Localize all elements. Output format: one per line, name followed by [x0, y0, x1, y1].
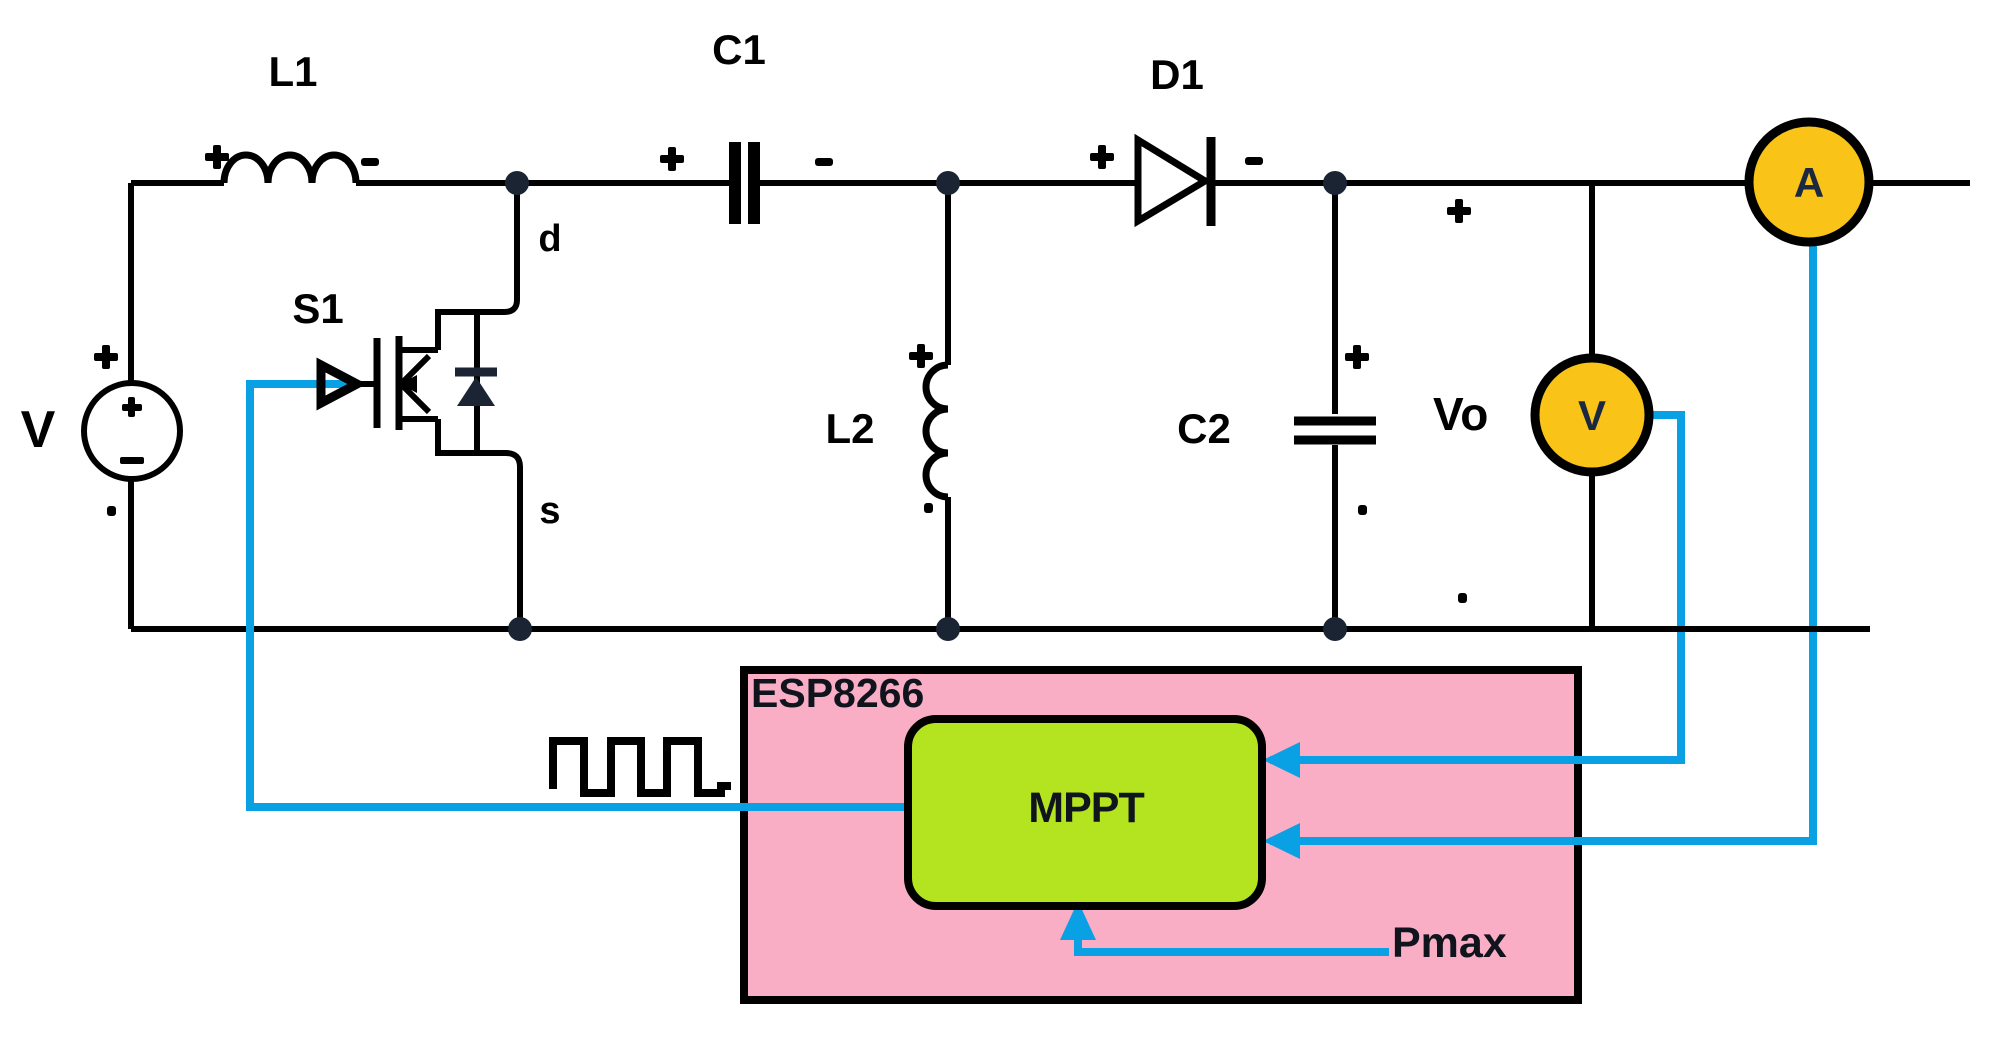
- polarity marker: minus D1 right: [1245, 157, 1263, 165]
- wire: Pmax input (blue): [1078, 910, 1389, 952]
- capacitor C1: [735, 142, 754, 224]
- inductor L1: [224, 155, 356, 183]
- MOSFET S1 source connection: [438, 419, 520, 629]
- arrowhead ammeter feedback: [1263, 823, 1300, 859]
- svg-text:D1: D1: [1150, 51, 1204, 98]
- wire: ammeter feedback (blue) to MPPT: [1270, 240, 1813, 841]
- svg-text:Pmax: Pmax: [1392, 919, 1507, 967]
- polarity marker: plus D1 left: [1090, 145, 1114, 169]
- arrowhead Pmax: [1060, 901, 1096, 940]
- ESP8266 controller box: [744, 670, 1578, 1000]
- node E (bottom, L2): [936, 617, 960, 641]
- polarity marker: dot source V bottom: [107, 506, 116, 516]
- polarity marker: dot L2 bottom: [924, 503, 933, 513]
- node D (bottom, source): [508, 617, 532, 641]
- polarity marker: plus L1 left: [205, 145, 229, 169]
- wire: gate stub (blue) into S1 gate arrow: [250, 384, 350, 388]
- MOSFET S1 symbol: [321, 336, 438, 430]
- polarity marker: minus inside source V: [120, 457, 144, 464]
- wire: top rail D1 to right end: [1211, 180, 1970, 186]
- node A (top, drain): [505, 171, 529, 195]
- svg-text:A: A: [1794, 159, 1824, 206]
- MOSFET S1 drain connection: [438, 183, 517, 350]
- svg-text:S1: S1: [292, 285, 343, 332]
- node B (top, C1-L2): [936, 171, 960, 195]
- polarity marker: minus L1 right: [361, 158, 379, 166]
- polarity marker: plus source V top: [94, 345, 118, 369]
- voltmeter V: [1535, 358, 1649, 472]
- ammeter A: [1749, 122, 1869, 242]
- MOSFET S1 body diode: [455, 312, 497, 453]
- wire: left rail lower: [128, 479, 134, 629]
- inductor L2: [926, 183, 948, 629]
- polarity marker: plus L2 top: [909, 344, 933, 368]
- svg-text:L1: L1: [268, 48, 317, 95]
- PWM square wave symbol: [553, 741, 731, 793]
- svg-text:ESP8266: ESP8266: [751, 670, 924, 716]
- MPPT block: [908, 719, 1262, 906]
- arrowhead voltmeter feedback: [1263, 742, 1300, 778]
- svg-text:V: V: [21, 401, 56, 459]
- wire: voltmeter feedback (blue) to MPPT: [1270, 415, 1681, 760]
- svg-text:Vo: Vo: [1433, 388, 1488, 440]
- node C (top, D1-C2): [1323, 171, 1347, 195]
- svg-text:V: V: [1578, 392, 1606, 439]
- wire: top rail L1 to C1: [356, 180, 729, 186]
- wire: voltmeter branch: [1589, 183, 1595, 629]
- polarity marker: dot C2 bottom: [1358, 505, 1367, 515]
- polarity marker: dot Vo bottom: [1458, 593, 1467, 603]
- wire: top rail left segment: [131, 180, 224, 186]
- polarity marker: plus C2 top: [1345, 345, 1369, 369]
- polarity marker: plus Vo top: [1447, 199, 1471, 223]
- node F (bottom, C2): [1323, 617, 1347, 641]
- capacitor C2: [1294, 183, 1376, 629]
- polarity marker: minus C1 right: [815, 158, 833, 166]
- wire: PWM gate drive (blue) from MPPT to S1 gate: [250, 380, 915, 807]
- wire: top rail C1 to D1: [760, 180, 1138, 186]
- svg-text:L2: L2: [825, 405, 874, 452]
- wire: bottom rail: [131, 626, 1870, 632]
- svg-text:MPPT: MPPT: [1028, 784, 1144, 832]
- svg-text:C1: C1: [712, 26, 766, 73]
- svg-text:s: s: [539, 490, 560, 532]
- polarity marker: plus C1 left: [660, 147, 684, 171]
- svg-text:C2: C2: [1177, 405, 1231, 452]
- svg-text:d: d: [538, 218, 561, 260]
- diode D1: [1138, 137, 1211, 226]
- voltage source V: [84, 383, 180, 479]
- wire: left rail upper: [128, 183, 134, 383]
- polarity marker: plus inside source V: [122, 397, 142, 417]
